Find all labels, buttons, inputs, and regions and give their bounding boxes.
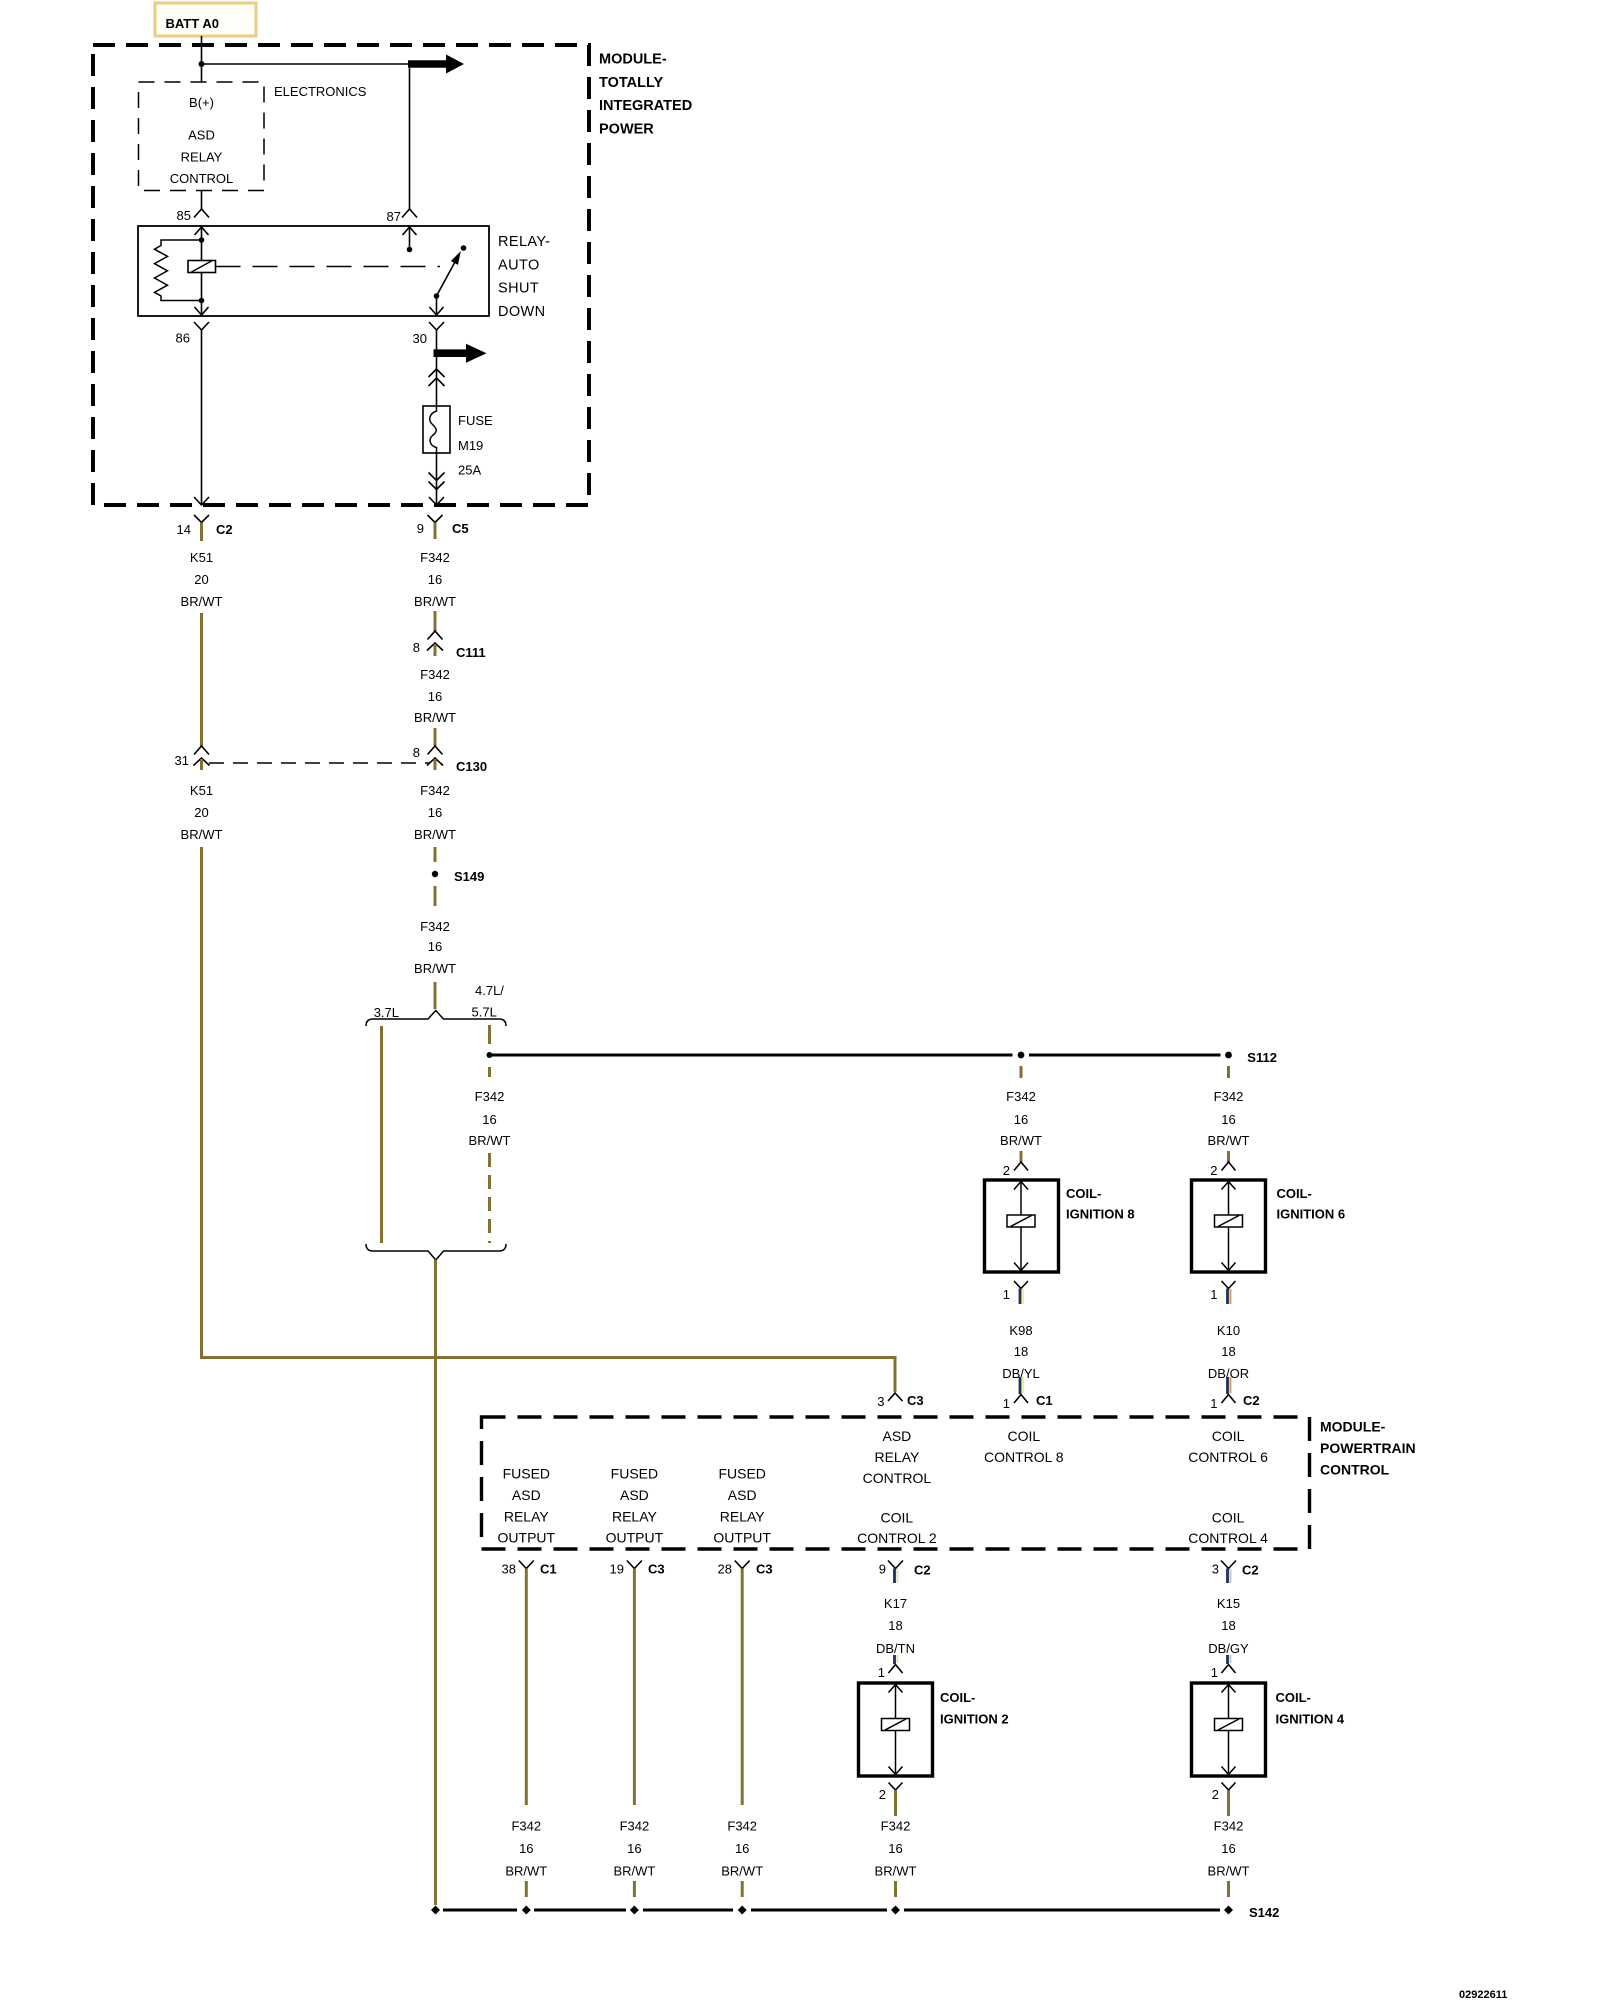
svg-text:K51: K51: [190, 550, 213, 565]
svg-text:02922611: 02922611: [1459, 1989, 1507, 2000]
pin 2 connector coil 8: [1003, 1162, 1028, 1178]
svg-text:C2: C2: [216, 522, 233, 537]
svg-text:F342: F342: [1214, 1819, 1244, 1834]
svg-text:1: 1: [1210, 1396, 1217, 1411]
coil-ignition 4: [1192, 1683, 1345, 1776]
junction node at B(+) feed: [199, 61, 205, 67]
svg-text:IGNITION 4: IGNITION 4: [1276, 1712, 1345, 1727]
svg-text:F342: F342: [420, 550, 450, 565]
svg-text:F342: F342: [620, 1819, 650, 1834]
label RELAY-AUTO SHUT DOWN: [498, 234, 550, 320]
svg-text:SHUT: SHUT: [498, 281, 539, 297]
svg-text:F342: F342: [1214, 1089, 1244, 1104]
wire K17 to coil 2: [895, 1655, 898, 1664]
svg-text:16: 16: [1014, 1112, 1028, 1127]
wire main F342 run to S142: [434, 1260, 437, 1906]
svg-text:16: 16: [627, 1841, 641, 1856]
svg-text:ASD: ASD: [188, 128, 215, 143]
svg-text:K15: K15: [1217, 1596, 1240, 1611]
off-page arrow (pin 30 feed): [434, 344, 487, 363]
svg-text:RELAY-: RELAY-: [498, 234, 550, 250]
svg-text:CONTROL 2: CONTROL 2: [857, 1530, 937, 1546]
fuse M19 25A: [423, 406, 493, 478]
relay pin 87 contact wire: [409, 226, 411, 250]
arrowhead out of box at pin 86: [195, 307, 209, 315]
svg-text:F342: F342: [475, 1089, 505, 1104]
svg-text:RELAY: RELAY: [181, 149, 223, 164]
svg-text:DB/GY: DB/GY: [1208, 1641, 1249, 1656]
svg-text:FUSED: FUSED: [718, 1466, 765, 1482]
label MODULE-POWERTRAIN CONTROL: [1320, 1419, 1416, 1478]
svg-text:C1: C1: [1036, 1393, 1053, 1408]
wire 4.7L/5.7L branch (dashed) to S112: [488, 1025, 491, 1044]
svg-text:25A: 25A: [458, 463, 481, 478]
svg-text:FUSED: FUSED: [611, 1466, 658, 1482]
svg-text:8: 8: [413, 745, 420, 760]
connector C1 pin 38 (fused asd relay output): [502, 1561, 557, 1584]
off-page arrow (top): [408, 55, 464, 74]
svg-text:COIL-: COIL-: [1277, 1186, 1312, 1201]
svg-text:CONTROL: CONTROL: [863, 1470, 932, 1486]
svg-text:S112: S112: [1247, 1050, 1277, 1065]
pin 85 connector: [177, 208, 209, 223]
engine variant split brace (3.7L / 4.7L-5.7L): [366, 983, 506, 1026]
svg-text:C3: C3: [907, 1393, 924, 1408]
svg-text:18: 18: [1221, 1344, 1235, 1359]
svg-text:DOWN: DOWN: [498, 304, 546, 320]
svg-text:OUTPUT: OUTPUT: [713, 1530, 771, 1546]
wire label F342 16 BR/WT (coil 6 feed): [1208, 1089, 1250, 1148]
svg-text:19: 19: [610, 1562, 624, 1577]
svg-text:28: 28: [718, 1562, 732, 1577]
svg-text:IGNITION 2: IGNITION 2: [940, 1712, 1009, 1727]
svg-text:BR/WT: BR/WT: [181, 594, 223, 609]
svg-text:POWERTRAIN: POWERTRAIN: [1320, 1440, 1416, 1456]
svg-text:F342: F342: [420, 783, 450, 798]
svg-text:1: 1: [878, 1665, 885, 1680]
wire label F342 16 BR/WT (4.7L branch): [469, 1089, 511, 1148]
svg-text:31: 31: [175, 753, 189, 768]
svg-text:K17: K17: [884, 1596, 907, 1611]
svg-text:FUSED: FUSED: [503, 1466, 550, 1482]
splice S112 junction on branch: [487, 1052, 493, 1058]
PCM internal label ASD RELAY CONTROL / COIL CONTROL 2: [857, 1428, 937, 1546]
svg-text:F342: F342: [727, 1819, 757, 1834]
svg-text:COIL: COIL: [1212, 1428, 1245, 1444]
svg-text:C5: C5: [452, 521, 469, 536]
coil-ignition 8: [985, 1180, 1135, 1272]
wire label K17 18 DB/TN: [876, 1596, 915, 1656]
svg-text:2: 2: [1003, 1163, 1010, 1178]
svg-text:20: 20: [194, 572, 208, 587]
svg-text:S149: S149: [454, 869, 484, 884]
resistor (relay suppression, parallel): [155, 240, 202, 301]
module box - totally integrated power (dashed border): [93, 45, 589, 505]
wire label F342 16 BR/WT (below C130): [414, 783, 456, 842]
svg-text:C3: C3: [648, 1562, 665, 1577]
svg-text:C2: C2: [1242, 1563, 1259, 1578]
pin 1 connector coil 4: [1211, 1665, 1236, 1681]
svg-text:CONTROL 8: CONTROL 8: [984, 1449, 1064, 1465]
wire S112 to coil 6: [1227, 1066, 1230, 1078]
svg-text:IGNITION 6: IGNITION 6: [1277, 1207, 1346, 1222]
svg-text:ASD: ASD: [512, 1487, 541, 1503]
svg-text:COIL: COIL: [1007, 1428, 1040, 1444]
pin 1 connector coil 8: [1003, 1281, 1028, 1304]
svg-text:9: 9: [417, 521, 424, 536]
svg-text:CONTROL: CONTROL: [1320, 1462, 1390, 1478]
svg-text:1: 1: [1210, 1287, 1217, 1302]
PCM internal label FUSED ASD RELAY OUTPUT (2): [606, 1466, 664, 1546]
wire F342 output 38 to S142: [525, 1583, 528, 1805]
pin 1 connector coil 2: [878, 1665, 903, 1681]
PCM internal label FUSED ASD RELAY OUTPUT (1): [498, 1466, 556, 1546]
exit arrowhead at module edge (C2): [194, 497, 209, 505]
svg-text:16: 16: [428, 689, 442, 704]
svg-text:BR/WT: BR/WT: [505, 1864, 547, 1879]
svg-text:K10: K10: [1217, 1323, 1240, 1338]
svg-text:TOTALLY: TOTALLY: [599, 75, 664, 91]
connector C2 pin 9 (coil control 2): [879, 1561, 931, 1584]
wire K51 long run to ASD relay control C3: [202, 847, 896, 1392]
svg-text:RELAY: RELAY: [612, 1509, 658, 1525]
wire label F342 16 BR/WT (coil 4 return): [1208, 1819, 1250, 1879]
svg-text:30: 30: [413, 331, 427, 346]
wire K10 to PCM C2: [1228, 1377, 1231, 1394]
svg-text:86: 86: [176, 331, 190, 346]
svg-text:BR/WT: BR/WT: [414, 594, 456, 609]
svg-text:MODULE-: MODULE-: [599, 52, 667, 68]
pin 2 connector coil 4: [1212, 1783, 1236, 1817]
splice S112 bus wire: [492, 1050, 1277, 1065]
internal connector chevrons below fuse: [429, 473, 445, 490]
svg-text:16: 16: [735, 1841, 749, 1856]
connector C111 pin 8: [413, 631, 486, 660]
PCM internal label COIL CONTROL 8: [984, 1428, 1064, 1465]
wire label K15 18 DB/GY: [1208, 1596, 1249, 1656]
wire K98 to PCM C1: [1020, 1377, 1023, 1394]
svg-text:38: 38: [502, 1562, 516, 1577]
connector C130 pin 8 (right): [413, 745, 487, 774]
junction node coil top: [199, 237, 205, 243]
svg-text:16: 16: [888, 1841, 902, 1856]
svg-text:BR/WT: BR/WT: [1208, 1133, 1250, 1148]
relay switch arm: [430, 253, 461, 316]
internal connector chevrons above fuse: [429, 369, 445, 386]
svg-text:85: 85: [177, 208, 191, 223]
wire S112 to coil 8: [1020, 1066, 1023, 1078]
svg-text:16: 16: [428, 939, 442, 954]
svg-text:MODULE-: MODULE-: [1320, 1419, 1386, 1435]
wire label F342 16 BR/WT (coil 2 return): [875, 1819, 917, 1879]
wire from BATT A0 down into module: [201, 36, 203, 82]
wire S149 down: [434, 886, 437, 906]
relay K1 - auto shut down (outline): [138, 226, 489, 316]
label MODULE-TOTALLY INTEGRATED POWER: [599, 52, 692, 138]
svg-text:F342: F342: [511, 1819, 541, 1834]
svg-text:F342: F342: [1006, 1089, 1036, 1104]
svg-text:8: 8: [413, 640, 420, 655]
svg-text:4.7L/: 4.7L/: [475, 983, 504, 998]
wire junction to off-page arrow: [202, 63, 411, 65]
coil-ignition 2: [859, 1683, 1009, 1776]
svg-text:RELAY: RELAY: [720, 1509, 766, 1525]
svg-text:2: 2: [1210, 1163, 1217, 1178]
svg-text:K98: K98: [1009, 1323, 1032, 1338]
splice S149: [432, 869, 485, 884]
wire label K51 20 BR/WT (upper): [181, 550, 223, 609]
exit arrowhead at module edge (C5): [429, 497, 444, 505]
wire F342 to connector C111: [434, 611, 437, 631]
svg-text:IGNITION 8: IGNITION 8: [1066, 1207, 1135, 1222]
svg-text:COIL-: COIL-: [1276, 1690, 1311, 1705]
svg-text:COIL: COIL: [1212, 1510, 1245, 1526]
wire K15 to coil 4: [1228, 1655, 1231, 1664]
svg-text:18: 18: [1221, 1618, 1235, 1633]
svg-text:F342: F342: [420, 667, 450, 682]
svg-text:COIL: COIL: [881, 1510, 914, 1526]
svg-text:DB/TN: DB/TN: [876, 1641, 915, 1656]
svg-text:C1: C1: [540, 1562, 557, 1577]
PCM internal label COIL CONTROL 6 / COIL CONTROL 4: [1188, 1428, 1268, 1546]
svg-text:87: 87: [387, 209, 401, 224]
connector C130 pin 31 (left): [175, 746, 210, 770]
svg-text:3: 3: [1212, 1562, 1219, 1577]
svg-text:K51: K51: [190, 783, 213, 798]
B(+) ASD RELAY CONTROL internal dashed box: [139, 82, 265, 191]
svg-text:C111: C111: [456, 645, 486, 660]
svg-text:16: 16: [1221, 1112, 1235, 1127]
svg-text:BR/WT: BR/WT: [613, 1864, 655, 1879]
arrowhead into box at pin 85: [195, 227, 209, 235]
svg-text:16: 16: [428, 805, 442, 820]
wire label F342 16 BR/WT (coil 8 feed): [1000, 1089, 1042, 1148]
connector C130 linkage (dashed): [209, 762, 429, 764]
wire pin 30 to fuse: [436, 330, 438, 406]
svg-text:OUTPUT: OUTPUT: [498, 1530, 556, 1546]
pin 2 connector coil 6: [1210, 1162, 1235, 1178]
wire K51 to connector C130 pin 31: [200, 613, 203, 746]
svg-text:20: 20: [194, 805, 208, 820]
svg-text:2: 2: [879, 1787, 886, 1802]
svg-text:F342: F342: [881, 1819, 911, 1834]
pin 1 connector coil 6: [1210, 1281, 1235, 1304]
mechanical linkage (dashed): [216, 266, 441, 268]
wire pin 86 to connector C2: [201, 338, 203, 504]
wire label F342 16 BR/WT (below C111): [414, 667, 456, 725]
svg-text:OUTPUT: OUTPUT: [606, 1530, 664, 1546]
PCM internal label FUSED ASD RELAY OUTPUT (3): [713, 1466, 771, 1546]
engine variant rejoin brace: [366, 1244, 506, 1260]
connector C3 pin 19 (fused asd relay output): [610, 1561, 665, 1584]
svg-text:POWER: POWER: [599, 121, 654, 137]
wire label F342 16 BR/WT (C5 out): [414, 550, 456, 609]
wire F342 output 19 to S142: [633, 1583, 636, 1805]
svg-text:16: 16: [519, 1841, 533, 1856]
wire label K51 20 BR/WT (lower): [181, 783, 223, 842]
svg-text:RELAY: RELAY: [874, 1449, 920, 1465]
wire F342 to splice S149: [434, 847, 437, 862]
splice S142 bus: [431, 1905, 1279, 1920]
svg-text:BATT A0: BATT A0: [166, 16, 219, 31]
svg-text:BR/WT: BR/WT: [181, 827, 223, 842]
wire from arrow junction down to relay pin 87: [409, 68, 411, 209]
pin 87 connector: [387, 209, 417, 224]
svg-text:ELECTRONICS: ELECTRONICS: [274, 84, 367, 99]
wire to engine split brace: [434, 982, 437, 1009]
relay switch fixed contact: [461, 245, 467, 251]
svg-text:14: 14: [177, 522, 191, 537]
svg-text:CONTROL 4: CONTROL 4: [1188, 1530, 1268, 1546]
relay coil branch wire (pin 85 to 86): [201, 226, 203, 316]
svg-text:B(+): B(+): [189, 95, 214, 110]
wire label K10 18 DB/OR: [1208, 1323, 1249, 1381]
svg-text:18: 18: [888, 1618, 902, 1633]
connector C3 pin 28 (fused asd relay output): [718, 1561, 773, 1584]
svg-text:3: 3: [877, 1394, 884, 1409]
svg-text:C2: C2: [914, 1563, 931, 1578]
svg-text:16: 16: [428, 572, 442, 587]
svg-text:M19: M19: [458, 438, 483, 453]
svg-text:CONTROL: CONTROL: [170, 171, 234, 186]
svg-text:BR/WT: BR/WT: [721, 1864, 763, 1879]
svg-text:RELAY: RELAY: [504, 1509, 550, 1525]
coil-ignition 6: [1192, 1180, 1346, 1272]
svg-text:1: 1: [1211, 1665, 1218, 1680]
wire 3.7L branch: [380, 1026, 383, 1243]
connector C2 pin 1 (PCM coil control 6): [1210, 1393, 1259, 1411]
connector C2 pin 3 (coil control 4): [1212, 1561, 1259, 1584]
module box - powertrain control (dashed border): [482, 1417, 1310, 1549]
svg-text:9: 9: [879, 1562, 886, 1577]
svg-text:ASD: ASD: [883, 1428, 912, 1444]
svg-text:FUSE: FUSE: [458, 413, 493, 428]
pin 30 connector: [413, 322, 444, 346]
svg-text:3.7L: 3.7L: [374, 1005, 399, 1020]
connector C3 pin 3 (PCM asd relay control): [877, 1393, 923, 1409]
svg-text:BR/WT: BR/WT: [1000, 1133, 1042, 1148]
svg-text:C3: C3: [756, 1562, 773, 1577]
pin 86 connector: [176, 322, 209, 346]
wire F342 to C130: [434, 728, 437, 746]
svg-text:CONTROL 6: CONTROL 6: [1188, 1449, 1268, 1465]
wire 4.7L branch (dashed) to rejoin brace: [488, 1153, 491, 1243]
pin 2 connector coil 2: [879, 1783, 903, 1817]
connector C2 pin 14: [177, 515, 233, 541]
svg-text:ASD: ASD: [728, 1487, 757, 1503]
svg-text:COIL-: COIL-: [1066, 1186, 1101, 1201]
svg-text:BR/WT: BR/WT: [469, 1133, 511, 1148]
svg-text:2: 2: [1212, 1787, 1219, 1802]
svg-text:1: 1: [1003, 1396, 1010, 1411]
svg-text:C130: C130: [456, 759, 487, 774]
svg-text:BR/WT: BR/WT: [1208, 1864, 1250, 1879]
wire fuse to connector C5: [436, 453, 438, 504]
svg-text:C2: C2: [1243, 1393, 1260, 1408]
svg-text:18: 18: [1014, 1344, 1028, 1359]
node BATT A0 (battery feed callout box): [155, 3, 256, 36]
svg-text:AUTO: AUTO: [498, 257, 540, 273]
svg-text:F342: F342: [420, 919, 450, 934]
svg-text:5.7L: 5.7L: [472, 1005, 497, 1020]
wire label K98 18 DB/YL: [1002, 1323, 1040, 1381]
svg-text:ASD: ASD: [620, 1487, 649, 1503]
wire F342 output 28 to S142: [741, 1583, 744, 1805]
svg-text:COIL-: COIL-: [940, 1690, 975, 1705]
svg-text:1: 1: [1003, 1287, 1010, 1302]
svg-text:BR/WT: BR/WT: [414, 710, 456, 725]
svg-text:S142: S142: [1249, 1905, 1279, 1920]
connector C1 pin 1 (PCM coil control 8): [1003, 1393, 1053, 1411]
svg-text:BR/WT: BR/WT: [875, 1864, 917, 1879]
svg-text:BR/WT: BR/WT: [414, 827, 456, 842]
svg-text:16: 16: [1221, 1841, 1235, 1856]
junction node coil bottom: [199, 298, 205, 304]
wire label F342 16 BR/WT (below S149): [414, 919, 456, 976]
relay coil symbol: [188, 261, 216, 273]
svg-text:INTEGRATED: INTEGRATED: [599, 98, 692, 114]
wire B(+) box to relay pin 85: [201, 191, 203, 210]
connector C5 pin 9: [417, 515, 469, 539]
svg-text:BR/WT: BR/WT: [414, 961, 456, 976]
svg-text:16: 16: [482, 1112, 496, 1127]
